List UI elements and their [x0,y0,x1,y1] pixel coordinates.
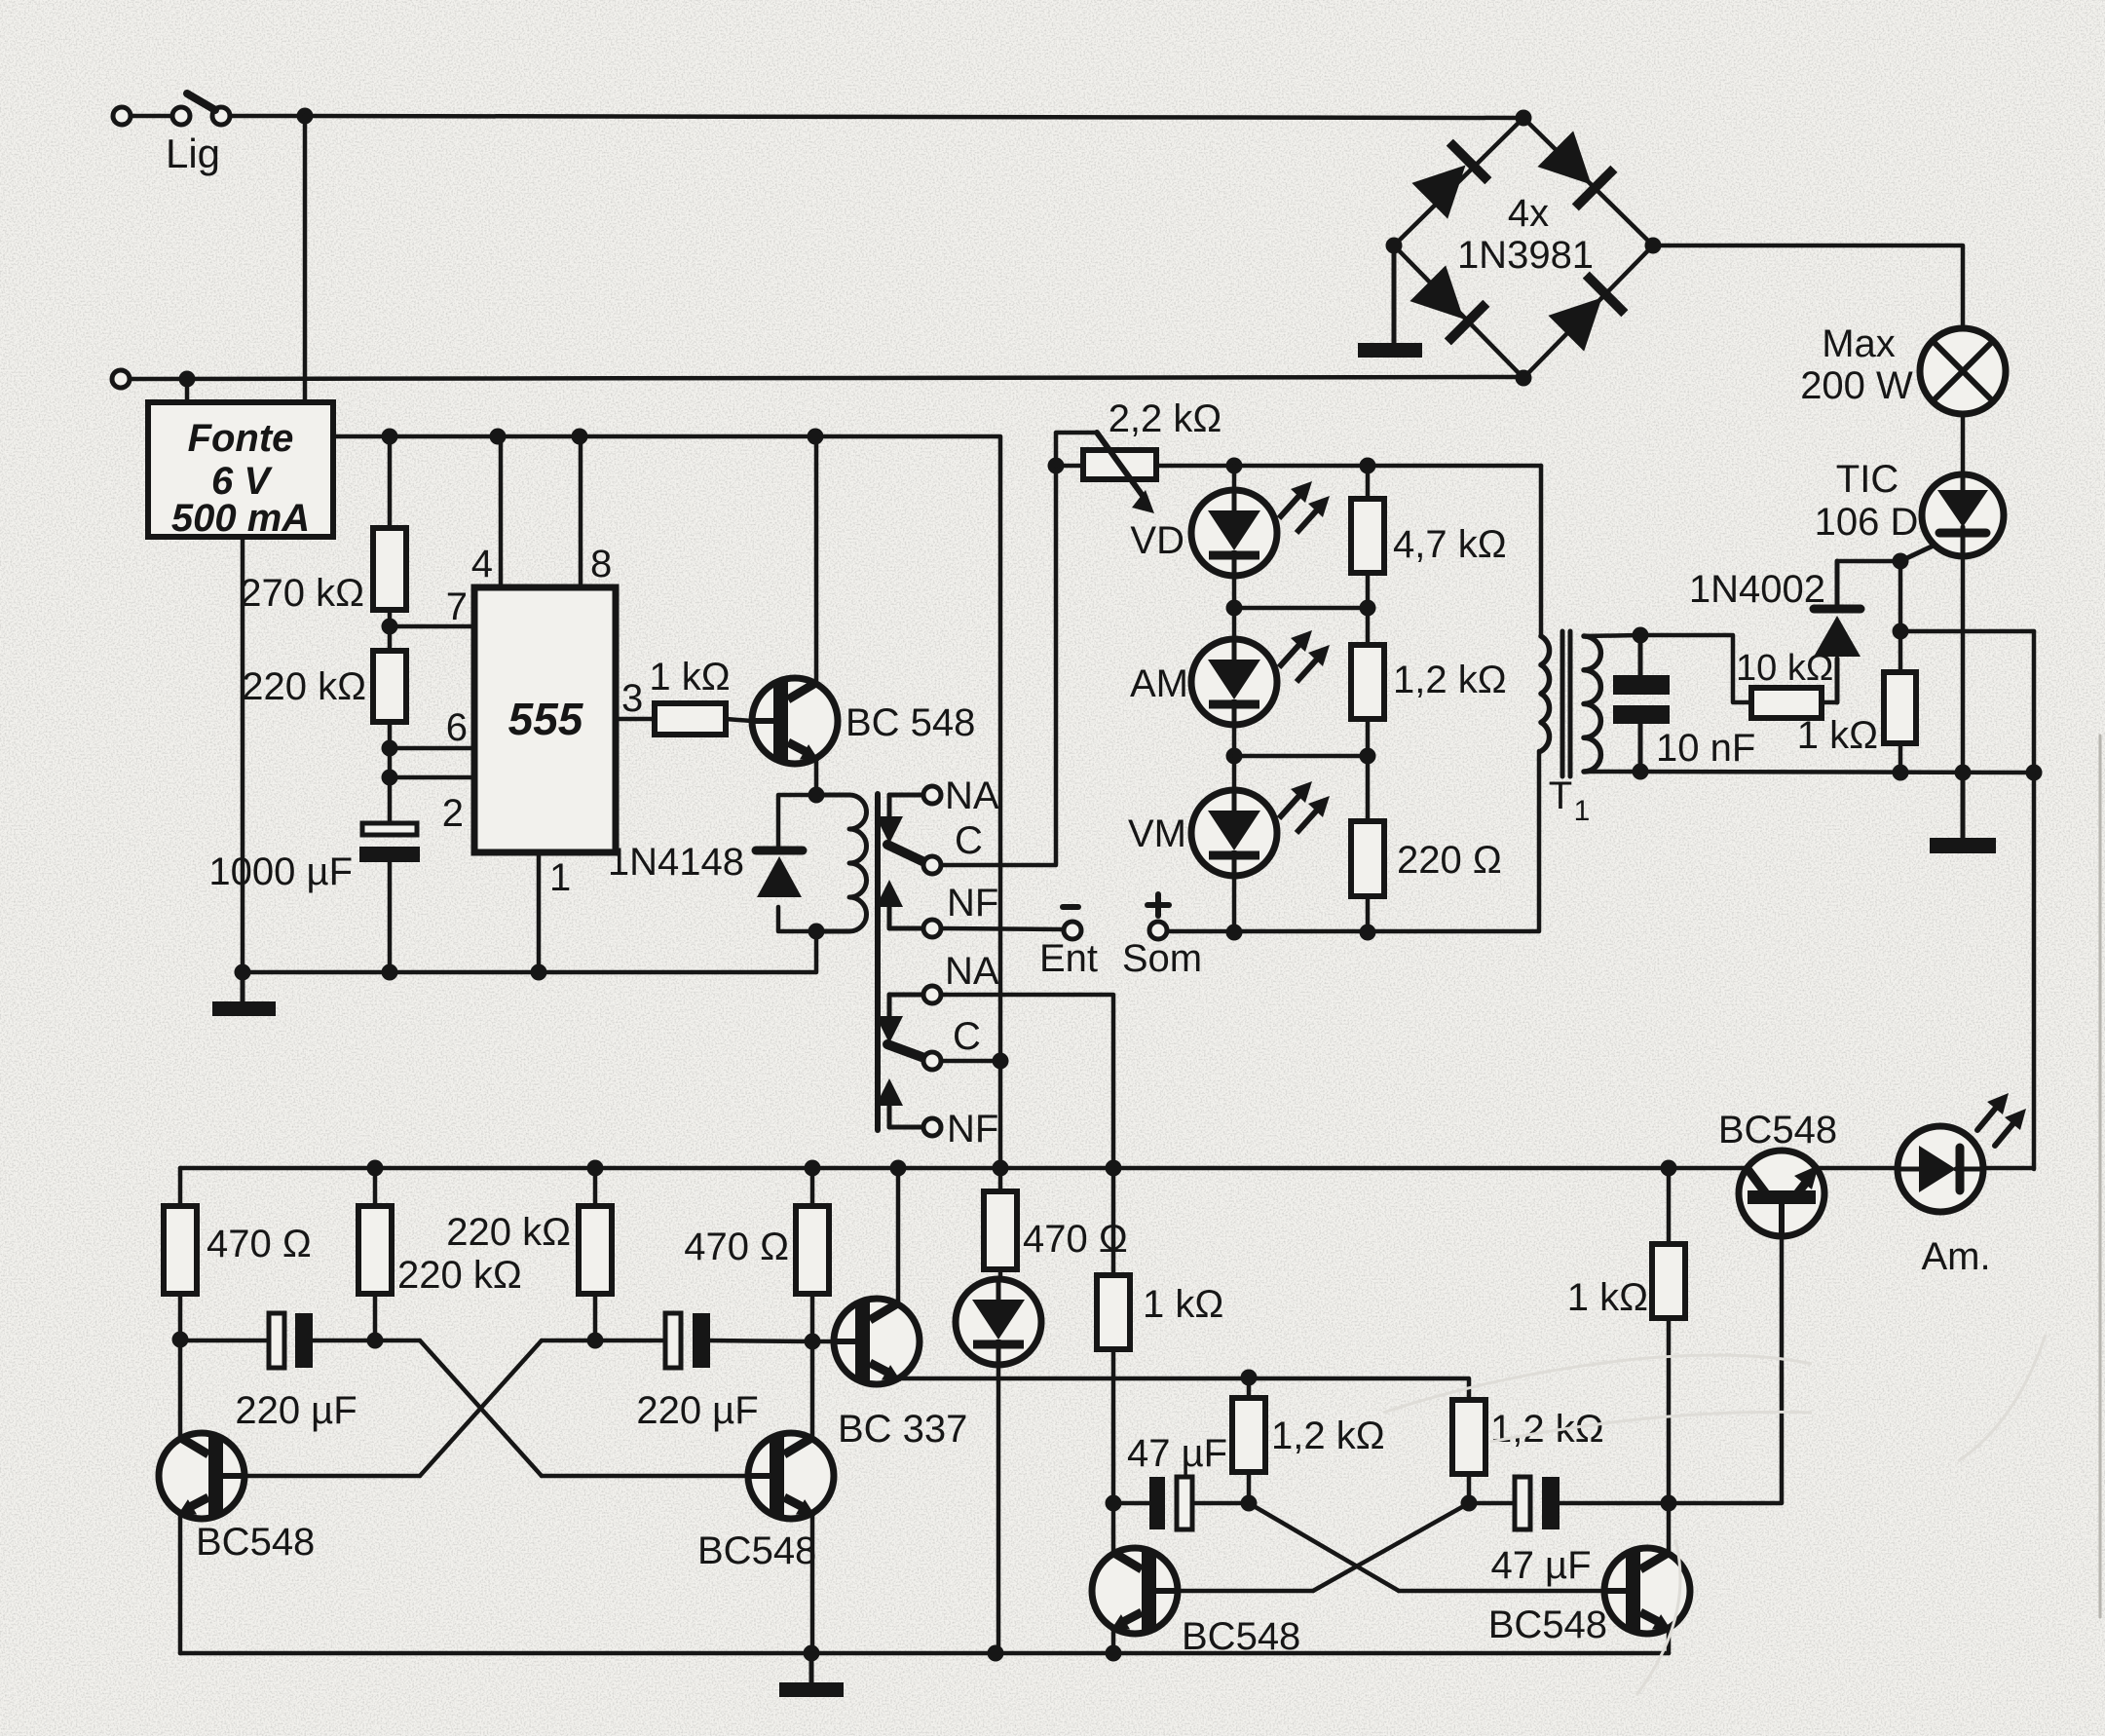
LED VM arrows [1279,781,1330,833]
node C (47uF a) [1106,1495,1122,1512]
junction emitter bus 1,2k a [1241,1370,1258,1386]
wire rail to 1k right [1667,1168,1672,1244]
potentiometer 2,2 kOhm body [1083,450,1156,479]
svg-text:4x: 4x [1508,192,1549,235]
wire gate node to TIC gate [1900,546,1934,561]
capacitor 220 uF (b) [665,1313,710,1368]
wire 10k to diode [1822,700,1837,705]
resistor 1,2 kOhm (LED) [1351,645,1384,719]
wire 220 to bottom rail [1366,896,1371,932]
wire 555 ground rail [243,970,815,975]
wire Fonte output rail (+6V) [333,436,1000,1168]
wire Q1 emitter to relay [814,758,819,795]
label plus [1147,894,1169,916]
wire cap b to node F [1560,1501,1669,1506]
svg-text:BC548: BC548 [697,1529,816,1572]
ground (555 section) [212,972,276,1016]
wire relay coil left branch bottom [778,907,816,931]
wire 1k right down to node F [1667,1318,1672,1503]
svg-text:500 mA: 500 mA [171,497,310,540]
potentiometer arrow [1097,433,1154,513]
wire cross right top [542,1339,595,1343]
wire node F to Q7 base [1669,1236,1782,1503]
node 1k gate bottom [1893,765,1909,781]
node bridge left [1386,238,1403,254]
junction +6V at pin8 [572,429,588,445]
wire LED section bottom rail [1167,751,1539,931]
bridge diode top-left [1410,142,1488,220]
wire 220k down to cap [388,722,393,823]
wire top rail [305,116,1523,118]
wire 1,2k to 220 [1366,719,1371,821]
junction pin7 node [382,619,398,635]
svg-text:BC548: BC548 [1488,1604,1607,1646]
node resistor chain 2 [1360,748,1376,765]
junction rail 470 b [805,1160,821,1177]
junction +6V at 270k [382,429,398,445]
svg-text:1,2 kΩ: 1,2 kΩ [1393,659,1507,701]
node pot feed [1048,458,1065,474]
wire bottom ground rail [180,1651,1669,1656]
node gate 1 [1893,553,1909,570]
wire Q3 collector [810,1341,815,1439]
wire Q5 collector [1111,1503,1116,1554]
label T1 [1549,774,1591,827]
node C2 junction [993,1053,1009,1070]
node 220ka bottom [367,1333,384,1349]
resistor 1 kOhm (mid) [1097,1275,1130,1349]
svg-text:1 kΩ: 1 kΩ [1797,714,1878,757]
svg-text:2: 2 [442,792,464,835]
switch Lig blade [187,94,215,110]
transformer T1 core [1562,631,1570,776]
svg-text:1000 µF: 1000 µF [208,850,353,893]
resistor 220 kOhm (a) [358,1206,392,1294]
wire pin 4 [499,436,504,587]
transistor Q7 BC548 (output, rotated) [1739,1151,1824,1236]
wire 220kb to node [593,1294,598,1340]
resistor 470 Ohm (a) [164,1206,197,1294]
node LED bottom [1226,925,1243,941]
wire node B to BC337 base [812,1340,857,1344]
junction rail 220k b [587,1160,604,1177]
node F [1661,1495,1677,1512]
LED AM arrows [1279,630,1330,682]
node gate 2 [1893,623,1909,640]
junction rail 1k mid [1106,1160,1122,1177]
terminal Ent [1064,922,1081,939]
capacitor 220 uF (a) [269,1313,313,1368]
resistor 220 kOhm (b) [579,1206,612,1294]
wire node down to Fonte [303,116,308,402]
bridge diode bottom-right [1547,275,1625,353]
node 220kb bottom [587,1333,604,1349]
switch Lig contact circles [172,107,230,125]
transistor Q5 BC548 (flasher left) [1092,1548,1178,1634]
bridge diode bottom-left [1409,264,1486,342]
transformer T1 secondary winding [1584,636,1600,772]
wire VM to bottom [1232,876,1237,932]
svg-text:C: C [955,819,983,862]
wire diag A1 [420,1340,542,1476]
svg-text:10 nF: 10 nF [1656,727,1755,770]
resistor 1 kOhm (gate) [1884,672,1916,743]
wire node E to cap b [1469,1501,1515,1506]
resistor 4,7 kOhm [1351,499,1384,573]
svg-text:Fonte: Fonte [188,417,294,460]
svg-text:6: 6 [446,706,468,749]
svg-text:270 kΩ: 270 kΩ [240,572,364,615]
wire gate node to 1k [1898,631,1903,672]
resistor 10 kOhm [1751,688,1822,718]
wire cap b to node B [710,1340,812,1341]
wire diag A2 [1249,1503,1399,1591]
wire cap to ground rail [388,862,393,972]
wire 470a to node A [178,1294,183,1340]
thyristor TIC 106D [1922,474,2004,556]
resistor 470 Ohm (c) [984,1191,1017,1269]
relay coil winding [816,795,867,931]
wire rail to 220kb [593,1168,598,1206]
wire 4,7k top [1366,466,1371,499]
capacitor 47 uF (b) [1515,1477,1560,1529]
wire Q5 emitter [1111,1628,1116,1653]
wire 1,2k a top [1247,1377,1252,1398]
svg-text:220 kΩ: 220 kΩ [446,1211,571,1254]
node E (1,2k b bottom) [1461,1495,1478,1512]
svg-text:1N3981: 1N3981 [1457,234,1594,277]
wire link VD-AM to resistors [1234,606,1368,611]
node secondary bottom [1633,764,1649,780]
svg-text:1 kΩ: 1 kΩ [649,656,730,698]
LED Am arrows [1977,1093,2026,1146]
diode D5 (indicator) [956,1279,1041,1365]
capacitor 10 nF [1613,635,1670,772]
svg-text:4: 4 [471,543,493,585]
LED Am (horizontal) [1898,1126,1983,1212]
svg-text:220 kΩ: 220 kΩ [242,665,366,708]
wire cap a to 220ka [313,1339,375,1343]
wire rail to 470a [178,1168,183,1206]
svg-text:220 Ω: 220 Ω [1397,839,1502,882]
wire cross left top [375,1339,420,1343]
wire rail to 470b [810,1168,815,1206]
wire diag B2 to Q5 base [1156,1589,1313,1594]
wire rail to 220ka [373,1168,378,1206]
svg-text:1,2 kΩ: 1,2 kΩ [1490,1408,1604,1451]
junction 555 ground left [235,964,251,981]
svg-text:1,2 kΩ: 1,2 kΩ [1271,1415,1385,1457]
svg-text:200 W: 200 W [1800,364,1913,407]
junction 555 ground 220k [382,964,398,981]
wire 1,2k b bottom [1467,1474,1472,1503]
wire diode to gate node [1837,559,1900,564]
junction rail 1k right [1661,1160,1677,1177]
wire 470c to diode [998,1269,1003,1279]
svg-text:Ent: Ent [1039,937,1098,980]
node B [805,1334,821,1350]
wire Q4 collector to rail [896,1168,901,1304]
svg-text:220 kΩ: 220 kΩ [397,1254,522,1297]
node secondary top [1633,627,1649,644]
transformer T1 primary winding [1541,636,1550,751]
wire 1k to base [726,719,752,721]
svg-text:1 kΩ: 1 kΩ [1143,1283,1223,1326]
wire diag B1 [420,1340,542,1476]
terminal Som [1149,922,1167,939]
svg-text:AM: AM [1130,662,1188,705]
junction rail 220k a [367,1160,384,1177]
wire 4,7k to 1,2k [1366,573,1371,645]
svg-text:220 µF: 220 µF [235,1389,357,1432]
transistor Q2 BC548 (astable left) [159,1433,244,1519]
wire second rail [130,377,1523,379]
wire lamp to TIC [1961,414,1966,474]
wire pin 8 [579,436,583,587]
wire pin 6 [390,746,474,751]
wire Fonte bottom to ground rail [241,537,245,972]
wire 1,2k a bottom [1247,1472,1252,1503]
wire 220kb to cap b [595,1339,665,1343]
junction rail 470 c [993,1160,1009,1177]
node TIC cathode at bus [1955,765,1972,781]
wire pot left [1056,464,1083,469]
scan artifact curves [1383,1335,2046,1695]
svg-text:2,2 kΩ: 2,2 kΩ [1109,397,1222,440]
ground (bottom) [779,1653,844,1697]
wire bottom bus (secondary to riser) [1640,772,2034,773]
lamp Max 200W [1920,328,2006,414]
wire relay coil bottom to ground rail [814,931,819,972]
resistor 220 Ohm [1351,821,1384,896]
svg-text:NF: NF [947,882,998,925]
svg-text:NA: NA [945,774,999,817]
relay contact set 1 (NA C NF) [876,786,941,937]
label minus [1063,904,1078,910]
IC 555 timer box [474,587,616,852]
LED VM [1191,790,1277,876]
node relay coil bottom [808,924,825,940]
svg-text:Lig: Lig [166,131,220,176]
LED AM [1191,639,1277,725]
svg-text:NA: NA [945,950,999,993]
svg-text:BC548: BC548 [196,1521,315,1564]
resistor 470 Ohm (b) [796,1206,829,1294]
node A [172,1332,189,1348]
wire NF1 to Ent [941,928,1064,929]
wire secondary to 10k [1640,635,1751,702]
svg-text:Max: Max [1822,322,1896,365]
node VD-AM [1226,600,1243,617]
resistor 1 kOhm (right) [1652,1244,1685,1318]
LED VD [1191,490,1277,576]
svg-text:VD: VD [1130,519,1184,562]
wire pin 7 [390,624,474,629]
wire diag B1 to Q2 base [223,1474,420,1479]
junction 555 ground pin1 [531,964,547,981]
wire cap a to node D [1192,1501,1249,1506]
wire nodeA to cap a [180,1339,269,1343]
wire link AM-VM to resistors [1234,754,1368,759]
input terminal (top line) [113,107,131,125]
wire Q1 collector to +6V [814,436,819,684]
svg-text:3: 3 [621,677,643,720]
wire diag B2 [1313,1503,1469,1591]
svg-text:1N4148: 1N4148 [608,841,744,884]
svg-text:1: 1 [1574,795,1591,827]
svg-text:47 µF: 47 µF [1127,1432,1227,1475]
transistor Q6 BC548 (flasher right) [1604,1548,1690,1634]
resistor 1,2 kOhm (b) [1452,1400,1485,1474]
svg-text:BC 337: BC 337 [838,1408,967,1451]
wire 1k gate to bottom [1898,743,1903,773]
wire rail to 470c [998,1168,1003,1191]
junction ground rail b [988,1645,1004,1662]
svg-text:VM: VM [1128,812,1186,855]
node AM-VM [1226,748,1243,765]
wire Q6 emitter [1667,1628,1672,1653]
wire TIC cathode to bus [1961,556,1966,773]
wire 220ka to node [373,1294,378,1340]
svg-text:1N4002: 1N4002 [1689,568,1825,611]
junction pin2 node [382,770,398,786]
wire secondary bottom link [1584,770,1640,774]
junction +6V at collector [808,429,824,445]
relay armature bar [875,794,881,1130]
svg-text:470 Ω: 470 Ω [207,1223,312,1265]
wire Q2 collector [178,1340,183,1439]
wire bottom +6V rail [180,1166,1747,1171]
svg-text:1: 1 [549,856,571,899]
LED VD arrows [1279,481,1330,533]
svg-text:470 Ω: 470 Ω [684,1226,789,1268]
ground (TIC cathode) [1930,773,1996,853]
transistor Q4 BC337 [834,1299,920,1384]
junction pin6 node [382,740,398,757]
wire gate down [1898,561,1903,631]
wire diag A1 to Q3 base [542,1474,770,1479]
svg-text:7: 7 [446,585,468,628]
wire bridge edges [1394,118,1653,378]
svg-text:47 µF: 47 µF [1490,1544,1591,1587]
wire bottom +6V rail seg3 [1982,1166,2034,1171]
wire pot bypass [1056,433,1097,466]
junction ground rail a [804,1645,820,1662]
wire relay coil left branch top [778,795,816,849]
svg-text:8: 8 [590,543,612,585]
junction LED rail 4,7k [1360,458,1376,474]
svg-text:BC548: BC548 [1718,1109,1837,1151]
node D (1,2k a bottom) [1241,1495,1258,1512]
wire AM to VM [1232,725,1237,790]
svg-text:4,7 kΩ: 4,7 kΩ [1393,523,1507,566]
svg-text:Som: Som [1122,937,1202,980]
node relay coil top [808,787,825,804]
wire pin 1 [537,852,542,972]
bridge diode top-right [1536,130,1614,208]
wire node to Fonte top [185,379,190,402]
svg-text:220 µF: 220 µF [636,1389,758,1432]
node top rail junction [297,108,314,125]
svg-text:BC 548: BC 548 [846,701,975,744]
wire bridge to lamp [1653,245,1963,328]
node bridge top [1516,110,1532,127]
svg-text:T: T [1549,774,1572,817]
node bridge right [1645,238,1662,254]
wire input to switch [131,114,172,119]
resistor 1 kOhm (555 output) [655,703,726,735]
resistor 270 kOhm [373,528,406,610]
wire VD top [1232,466,1237,490]
wire diag A2 to Q6 base [1399,1589,1624,1594]
wire 270k to 220k [388,610,393,651]
wire pin 3 [616,717,655,722]
wire Q4 emitter bus [898,1378,1469,1400]
node 220 bottom [1360,925,1376,941]
transistor Q3 BC548 (astable right) [748,1433,834,1519]
junction LED rail VD [1226,458,1243,474]
transistor Q1 BC548 (relay driver) [752,678,838,764]
wire 1k mid down [1111,1349,1116,1503]
wire secondary top link [1584,635,1640,636]
wire Q6 collector [1667,1503,1672,1554]
wire C2 contact to +6V line [941,1059,1000,1064]
wire bottom +6V rail seg2 [1817,1166,1898,1171]
svg-text:106 D: 106 D [1815,501,1919,544]
node right riser at bus [2026,765,2043,781]
wire Q3 emitter to ground rail [810,1513,815,1653]
power supply box Fonte 6V 500mA [148,402,333,537]
wire D5 to ground rail [996,1365,1001,1653]
ground (bridge) [1358,245,1422,358]
wire switch to node [230,114,305,119]
resistor 1,2 kOhm (a) [1232,1398,1265,1472]
scan page edge [2099,736,2102,1617]
wire node C to cap [1113,1501,1149,1506]
capacitor 1000 uF [359,823,420,862]
capacitor 47 uF (a) [1149,1477,1192,1529]
svg-text:Am.: Am. [1921,1235,1990,1278]
wire right riser [2032,631,2037,1169]
resistor 220 kOhm (timing) [373,651,406,722]
junction +6V at pin4 [490,429,507,445]
node second rail to Fonte [179,371,196,388]
wire gate node right [1900,629,2034,634]
input terminal (bottom line) [112,370,130,388]
diode 1N4148 (flyback) [756,850,803,897]
svg-text:555: 555 [508,694,584,744]
diode 1N4002 [1814,561,1861,702]
node resistor chain 1 [1360,600,1376,617]
wire +6V to 270k [388,436,393,528]
wire pot to LED rail [1156,464,1541,469]
node bridge bottom [1516,370,1532,387]
wire primary top [1539,466,1544,636]
wire Q2 emitter to ground rail [178,1513,183,1653]
junction ground rail c [1106,1645,1122,1662]
relay contact set 2 (NA C NF) [876,986,941,1136]
wire 470b to node B [810,1294,815,1341]
wire rail to 1k mid [1111,1168,1116,1275]
wire C1 contact to pot feed [941,466,1056,865]
svg-text:1 kΩ: 1 kΩ [1567,1276,1648,1319]
svg-text:C: C [953,1015,981,1058]
wire NA2 contact to bottom rail [941,995,1113,1168]
svg-text:NF: NF [947,1108,998,1151]
junction rail BC337 collector [890,1160,907,1177]
wire pin 2 [390,775,474,780]
svg-text:TIC: TIC [1836,458,1898,501]
